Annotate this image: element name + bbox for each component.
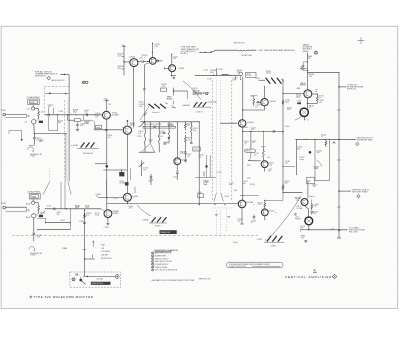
rail junction dots — [144, 121, 186, 122]
wire Q1114 base — [124, 61, 130, 63]
svg-text:SEE NOTE 3: SEE NOTE 3 — [234, 43, 245, 45]
input connector B — [1, 203, 6, 209]
svg-text:2.7k: 2.7k — [267, 157, 270, 159]
dark marks right of pot A — [39, 121, 43, 123]
svg-text:R1069: R1069 — [63, 248, 68, 250]
cal light label — [96, 278, 103, 281]
wire down to channel cable box — [68, 75, 70, 182]
svg-text:5: 5 — [152, 264, 153, 266]
svg-text:+DB RAT: +DB RAT — [101, 254, 109, 257]
label left of hatch LR — [257, 239, 266, 241]
x mark B — [28, 209, 30, 211]
svg-text:Q1114: Q1114 — [129, 56, 136, 58]
delay line rise — [211, 50, 216, 52]
svg-text:+1-107k: +1-107k — [119, 182, 125, 184]
micro labels input chain B — [46, 205, 65, 221]
svg-text:100: 100 — [313, 186, 316, 188]
dark component box — [119, 170, 124, 176]
right column lower resistor — [185, 132, 187, 151]
svg-text:1/16W: 1/16W — [30, 255, 35, 257]
labels Q1123B — [132, 196, 139, 198]
wire above Q1164 — [264, 86, 266, 99]
resistor R1102 labels — [118, 53, 125, 57]
svg-text:1052: 1052 — [32, 196, 36, 198]
vertical to flare A — [65, 134, 67, 182]
channel switch box A — [28, 99, 39, 105]
cable stub lower — [49, 168, 51, 181]
svg-text:Q1124: Q1124 — [142, 55, 149, 57]
labels R1135 — [161, 84, 166, 88]
svg-text:1meg: 1meg — [299, 159, 304, 161]
signal wire B — [45, 208, 101, 211]
svg-text:2: 2 — [152, 255, 153, 257]
svg-text:6: 6 — [152, 267, 153, 269]
svg-text:(2) MADE PANEL: (2) MADE PANEL — [27, 190, 40, 193]
lower chain A — [33, 134, 36, 145]
title vertical amplifier — [285, 275, 332, 279]
delay line flare — [214, 193, 223, 201]
micro tick marks rail — [247, 110, 341, 207]
transistor Q1154 — [261, 209, 268, 216]
labels amphenol A — [30, 153, 42, 158]
swoosh inside box — [317, 160, 322, 166]
svg-text:4.7k: 4.7k — [161, 86, 165, 88]
calibrator dashed box — [70, 272, 121, 287]
wire row A bottom — [34, 133, 67, 134]
transistor Q1114 label — [129, 56, 136, 58]
label C1065 — [79, 221, 84, 223]
gain branch right — [173, 90, 188, 99]
svg-text:6-12AT7: 6-12AT7 — [111, 212, 118, 215]
svg-text:SEE DWG 2: SEE DWG 2 — [35, 75, 47, 77]
transistor Q1124 — [149, 58, 156, 65]
input wires A — [6, 114, 27, 117]
text vert sig out — [357, 138, 374, 142]
label Q1144 — [247, 122, 255, 124]
transistor Q1163 — [304, 90, 312, 98]
micro labels input chain A — [41, 111, 70, 124]
labels R1125 — [138, 131, 143, 135]
x mark A — [28, 115, 30, 117]
micro labels right column — [297, 100, 314, 109]
+10v label — [121, 45, 125, 47]
label Q1152 — [269, 163, 274, 167]
svg-text:SUPPL 4D: SUPPL 4D — [347, 89, 357, 91]
svg-text:NOTE 4: NOTE 4 — [181, 53, 189, 55]
svg-text:1052: 1052 — [75, 207, 79, 209]
coil L1140 bumps — [222, 74, 229, 75]
pencil scribble — [233, 242, 238, 244]
svg-text:+: + — [69, 111, 70, 113]
svg-text:1052: 1052 — [73, 111, 77, 113]
below Q1152 arrow — [264, 168, 265, 172]
svg-text:47: 47 — [319, 97, 321, 99]
transistor Q1164 — [261, 99, 268, 106]
lower emitter rail — [139, 151, 155, 153]
svg-text:+12v: +12v — [26, 109, 30, 111]
svg-text:1/16W: 1/16W — [30, 155, 35, 157]
svg-text:PICKUP: PICKUP — [300, 84, 306, 86]
box C1102 — [96, 125, 102, 129]
ac source symbol A — [28, 145, 35, 152]
svg-text:L1085A: L1085A — [142, 218, 149, 221]
labels C1126 — [143, 168, 148, 172]
svg-text:GAIN SELECTOR SW: GAIN SELECTOR SW — [155, 260, 173, 263]
diode circle on driver row — [239, 72, 243, 80]
tube Q1194 dark — [305, 217, 313, 225]
svg-text:1.5k: 1.5k — [258, 204, 261, 206]
svg-text:R1105 T: R1105 T — [155, 226, 163, 228]
label below phase hatch — [155, 226, 163, 228]
wire Q1124 down long — [143, 63, 150, 122]
cable dashed left — [43, 87, 45, 110]
svg-text:6-12AT7: 6-12AT7 — [112, 114, 119, 117]
svg-text:1.7k: 1.7k — [331, 228, 334, 230]
label A01A — [26, 203, 31, 206]
below V1104B — [106, 217, 109, 225]
stadium box mid — [245, 149, 256, 152]
svg-text:VERT DEFL PLATE: VERT DEFL PLATE — [352, 190, 369, 193]
svg-text:3904: 3904 — [39, 141, 43, 143]
cal box wire — [83, 276, 115, 277]
svg-text:330: 330 — [57, 214, 60, 216]
bottom cross — [30, 296, 33, 299]
label 600ohm — [310, 196, 315, 198]
svg-text:Q1144B: Q1144B — [246, 202, 254, 204]
labels right of stub — [237, 70, 242, 74]
labels R1157 — [267, 157, 272, 172]
section separator dashed — [12, 235, 258, 237]
svg-text:LOW FREQ: LOW FREQ — [101, 251, 111, 253]
dark mark left low — [297, 102, 301, 104]
dark label above boxed res — [73, 110, 90, 126]
pot column B — [32, 200, 35, 231]
wire top right horizontal — [307, 72, 339, 73]
labels V1104A — [112, 113, 119, 117]
arrow feed top — [203, 171, 204, 176]
more labels mid B — [85, 205, 90, 209]
svg-text:TYPE 529 WAVEFORM MONITOR: TYPE 529 WAVEFORM MONITOR — [33, 295, 93, 299]
svg-text:GAIN: GAIN — [314, 167, 319, 170]
caps on emitter network — [153, 126, 165, 134]
tube V1163 dark — [300, 108, 308, 116]
emitter stick 2 vee — [141, 122, 154, 152]
cap to Q1164 base — [256, 101, 261, 103]
label R1136 820 — [210, 70, 217, 74]
delay line inner left — [215, 80, 217, 193]
lower right rail — [305, 181, 309, 218]
svg-text:DELAY LINE: DELAY LINE — [241, 54, 252, 57]
svg-text:(2) MADE PANEL: (2) MADE PANEL — [27, 96, 40, 99]
svg-text:1.5k: 1.5k — [37, 237, 40, 239]
svg-text:1.5k: 1.5k — [269, 164, 272, 166]
cross wire between rails — [243, 130, 283, 133]
cable inner wire — [45, 93, 69, 95]
below Q1133 — [176, 165, 179, 180]
svg-text:4.7k: 4.7k — [180, 153, 183, 155]
svg-text:.01: .01 — [95, 196, 98, 198]
svg-text:(SEE NOTE 2): (SEE NOTE 2) — [92, 283, 104, 285]
svg-text:SEE NOTE 3: SEE NOTE 3 — [196, 93, 205, 95]
input wires B — [6, 207, 27, 212]
svg-text:+9v: +9v — [122, 127, 125, 129]
main lower rail — [107, 203, 239, 206]
svg-text:POWER SUPPLY: POWER SUPPLY — [155, 264, 170, 266]
serial note text along line — [259, 49, 296, 52]
small print left — [198, 279, 211, 281]
svg-text:GIVEN CONDITIONS: GIVEN CONDITIONS — [229, 266, 247, 268]
wire driver row — [195, 75, 239, 76]
transistor Q1123B — [123, 193, 131, 201]
signal wire A — [44, 114, 102, 117]
arc trigger pickoff — [183, 81, 201, 99]
labels C1194 — [314, 204, 319, 208]
cable flare bottom — [43, 181, 71, 194]
wire Q1114 collector down — [132, 66, 134, 128]
labels C1148 — [255, 105, 260, 109]
wire Q1152 base — [248, 152, 261, 161]
wire y192.7 to Q1193 — [282, 192, 302, 193]
pot circle B2 — [32, 214, 36, 218]
svg-text:Q1164: Q1164 — [270, 101, 277, 103]
transistor Q1123A — [123, 126, 131, 134]
labels R1051 A — [36, 138, 41, 142]
input rail into Q1123A — [94, 129, 123, 131]
svg-text:1.3k: 1.3k — [143, 169, 146, 171]
pot column — [139, 160, 145, 176]
right mid rail — [282, 79, 283, 193]
text to notch filter — [347, 84, 364, 90]
svg-text:47: 47 — [309, 107, 311, 109]
text trigger pickoff — [193, 89, 210, 96]
svg-text:C1113: C1113 — [113, 198, 118, 200]
svg-text:.001: .001 — [187, 156, 190, 158]
labels +225v 2.2K — [154, 44, 160, 48]
svg-text:1052: 1052 — [30, 102, 34, 104]
svg-text:1meg: 1meg — [95, 215, 99, 217]
svg-text:+L1054A: +L1054A — [71, 144, 79, 147]
arrow wire to delay — [207, 101, 216, 102]
svg-text:-150v: -150v — [173, 176, 177, 178]
emitter stick 3 — [158, 122, 160, 152]
labels C1137b — [187, 154, 192, 158]
svg-text:P1051: P1051 — [1, 110, 6, 112]
labels R1128 — [163, 142, 168, 146]
label R1186 gain — [314, 166, 319, 170]
cathode chain vertical — [106, 119, 109, 210]
labels R1139 — [187, 138, 192, 142]
emitter stick 1 — [144, 122, 146, 152]
resistor feed left — [250, 96, 257, 106]
right end column — [190, 122, 198, 144]
cable dashed right — [68, 87, 70, 100]
svg-text:GEOMETRY GRID: GEOMETRY GRID — [357, 140, 373, 142]
notes list — [152, 252, 178, 272]
labels C1062 — [84, 110, 89, 114]
labels R1195 470 — [313, 211, 318, 215]
box 5mv cal — [160, 88, 166, 91]
arrow to notch filter — [339, 86, 346, 87]
label below hatch mid — [196, 111, 203, 113]
svg-text:SEE PARTS LIST FOR SEMICONDUCT: SEE PARTS LIST FOR SEMICONDUCTOR TYPES — [151, 279, 195, 282]
label on made panel A — [27, 96, 40, 99]
cal box terminal — [115, 275, 119, 279]
svg-text:(NOT USED IN SN101 AND SN2000-: (NOT USED IN SN101 AND SN2000-UP) — [259, 49, 296, 52]
labels V1104B — [111, 211, 119, 215]
wire Q1124 emitter right with cap — [156, 60, 163, 62]
swoosh to gain hatch — [140, 106, 149, 120]
arrow wire to text — [199, 51, 212, 53]
svg-text:2: 2 — [78, 275, 79, 277]
label Q1154 — [269, 211, 277, 213]
svg-text:39pf: 39pf — [234, 190, 238, 192]
transistor Q1144 — [239, 120, 246, 127]
svg-text:L1140: L1140 — [203, 70, 207, 72]
svg-text:C1125: C1125 — [137, 136, 142, 138]
label Q1144B — [246, 202, 254, 205]
svg-text:.005: .005 — [173, 58, 176, 60]
svg-text:.005: .005 — [314, 206, 318, 208]
pot circle A1 — [32, 107, 35, 110]
delay line bottom shield — [212, 207, 232, 209]
pot circle R040 — [314, 51, 317, 54]
labels R1176 — [300, 226, 305, 230]
svg-text:1.5k: 1.5k — [138, 133, 141, 135]
wire trace rotation column — [307, 53, 308, 73]
svg-text:Q1123: Q1123 — [130, 125, 135, 127]
svg-text:+ PRINTED 1/4W: + PRINTED 1/4W — [198, 279, 211, 281]
label on made panel B — [27, 190, 40, 193]
svg-text:4.7: 4.7 — [255, 106, 257, 108]
wire output row — [295, 139, 355, 140]
wire below tube with arrow — [304, 117, 309, 122]
svg-text:20k: 20k — [187, 125, 190, 127]
wire y166 stub — [283, 165, 295, 167]
labels R1137 20K — [187, 123, 192, 127]
tube V1104B — [104, 210, 112, 218]
svg-text:10k: 10k — [198, 156, 201, 158]
label below hatch A — [83, 152, 93, 155]
micro labels top mid — [203, 70, 211, 81]
svg-text:Q1144 +: Q1144 + — [247, 122, 255, 124]
delay line top wire with loops — [216, 49, 256, 52]
C1129 long capacitor box — [143, 126, 175, 128]
funnel ground marks — [215, 215, 230, 221]
title diamond — [332, 274, 337, 279]
left stub row1 — [95, 163, 107, 165]
svg-text:470k: 470k — [129, 207, 133, 209]
labels R1065 — [86, 213, 91, 217]
svg-text:DC BAL: DC BAL — [296, 207, 302, 210]
svg-text:.005: .005 — [252, 142, 255, 144]
feed arrow above Q1134 — [171, 53, 177, 64]
text trace rotation — [303, 43, 313, 52]
cable pair left — [63, 100, 65, 181]
trimmer box C1191 — [307, 177, 315, 184]
wire Q1154 top row — [265, 193, 283, 201]
resistor emitter column — [316, 94, 318, 103]
labels R06 — [296, 206, 302, 210]
bottom caption type 529 — [33, 295, 93, 299]
gain pot column — [171, 88, 175, 109]
riser to cal box — [85, 254, 96, 259]
labels C1134 — [149, 179, 154, 183]
svg-text:SEE P.L.: SEE P.L. — [246, 151, 252, 153]
labels beside rail — [244, 141, 249, 145]
wire Q1134 base stub — [165, 67, 169, 69]
label L1156 — [254, 153, 259, 157]
note text with diamond (see amplifier switch detail) — [35, 71, 58, 80]
svg-text:7: 7 — [152, 270, 153, 272]
labels above Q1154 — [258, 202, 263, 206]
label R1184 18K — [317, 150, 322, 154]
label left of phase hatch — [142, 218, 149, 221]
svg-text:C1128: C1128 — [158, 136, 163, 138]
resistor hatch phase — [149, 217, 167, 223]
svg-text:PHASE INV: PHASE INV — [160, 231, 171, 234]
svg-text:220: 220 — [285, 163, 288, 165]
svg-text:+12v: +12v — [139, 58, 143, 60]
stub left mid A — [9, 131, 23, 141]
transistor Q1134 — [169, 65, 176, 72]
dark marks right of pot B — [39, 215, 43, 217]
swoosh from tube — [295, 116, 302, 120]
cap marks right — [294, 214, 296, 215]
ac source symbol B — [29, 247, 35, 252]
resistor right rail lower — [282, 184, 284, 191]
labels delay line right — [287, 107, 292, 111]
svg-text:180: 180 — [243, 183, 246, 185]
svg-text:C1057: C1057 — [60, 220, 65, 222]
svg-text:150: 150 — [238, 221, 241, 223]
stadium note box — [227, 262, 284, 268]
resistor hatch lower right — [264, 236, 284, 242]
svg-text:FROM R1044: FROM R1044 — [101, 258, 112, 260]
svg-text:TIMING SWEEP: TIMING SWEEP — [155, 267, 169, 269]
micro labels emitter network — [122, 127, 169, 146]
diamond marker upper — [356, 142, 359, 145]
wire hatch to rail — [282, 78, 283, 80]
label Q1134 — [178, 68, 185, 70]
junction below Q1194 — [300, 225, 308, 232]
transistor Q1133 — [174, 158, 181, 165]
labels R1143 — [238, 219, 243, 223]
svg-text:C1056: C1056 — [58, 111, 63, 113]
svg-text:L1139: L1139 — [194, 149, 198, 151]
micro labels delay bottom — [224, 190, 237, 198]
boxed label L1142 — [197, 192, 203, 198]
svg-text:7-45: 7-45 — [308, 181, 311, 183]
boxed label L1139 — [193, 147, 200, 151]
loop wires B — [37, 209, 71, 230]
labels C1129 — [144, 123, 175, 127]
below Q1154 arrow — [264, 216, 265, 221]
labels Q1163 left — [296, 88, 302, 99]
svg-text:R1064A 470k: R1064A 470k — [83, 152, 93, 155]
label below hatch LR — [270, 245, 276, 247]
pot column A — [33, 105, 34, 133]
vert line left of tubeB — [106, 180, 108, 196]
labels C1166 — [285, 161, 290, 165]
label Q1124 — [142, 55, 149, 57]
dark junction blob — [309, 151, 312, 154]
label C1059 — [80, 123, 85, 127]
+225v arrow feed — [152, 42, 153, 58]
svg-text:+83: +83 — [108, 104, 111, 106]
load rail upper — [140, 121, 199, 122]
labels C1054 — [48, 104, 53, 108]
svg-text:C1203: C1203 — [257, 239, 262, 241]
